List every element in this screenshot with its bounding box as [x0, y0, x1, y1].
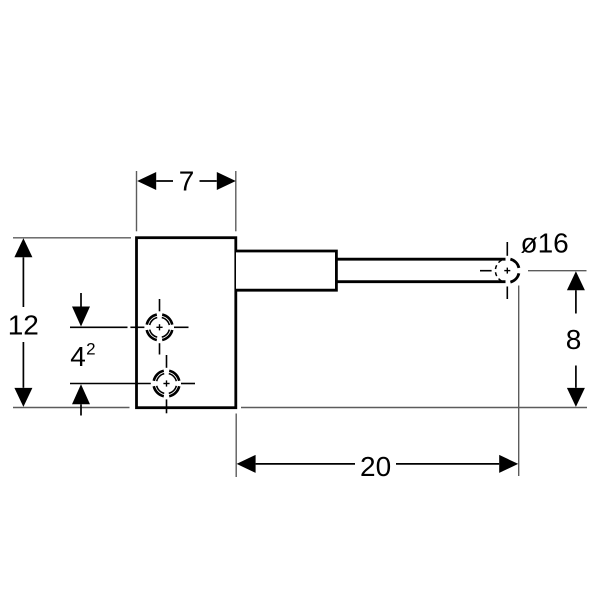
hole H1 center line horizontal — [130, 326, 144, 328]
dim 4 line lower — [80, 404, 82, 415]
hole H2 center line horizontal — [181, 383, 195, 385]
extension line dim7 left — [136, 171, 138, 231]
extension line bottom left — [13, 407, 130, 409]
hole H1 center line vertical — [159, 299, 161, 311]
dim 8 line — [575, 290, 577, 313]
rod collar segment — [236, 251, 336, 290]
dim 4 line upper — [80, 293, 82, 307]
rod shaft top line — [336, 258, 505, 261]
dim 12 line — [22, 257, 24, 307]
dim 4 extension lower — [70, 383, 151, 385]
dim 8 arrow top — [567, 271, 585, 290]
extension line dim8 top — [528, 270, 587, 272]
body plate outline — [137, 238, 236, 408]
rod end ball hidden dashed arc — [495, 260, 501, 281]
dim 12 arrow top — [14, 238, 32, 257]
rod shaft bottom line — [336, 280, 505, 283]
extension line dim7 right — [235, 171, 237, 231]
dim 20 arrow left — [237, 455, 256, 473]
dim 4 extension upper — [70, 326, 128, 328]
extension line bottom right — [241, 407, 587, 409]
hole H2 inner circle — [157, 374, 177, 394]
extension line dim12 top — [13, 237, 131, 239]
svg-text:4: 4 — [70, 341, 86, 372]
svg-text:8: 8 — [566, 324, 582, 355]
ball center line vertical — [506, 242, 508, 256]
hole H2 outer circle — [154, 371, 179, 396]
rod end ball cap arc — [510, 259, 519, 282]
ball center cross — [504, 270, 510, 272]
dim 4 arrow down — [72, 307, 90, 327]
dim 7 arrow right — [217, 172, 236, 190]
extension line dim20 left — [235, 414, 237, 478]
svg-text:ø16: ø16 — [520, 228, 568, 259]
dim 12 arrow bottom — [14, 388, 32, 407]
svg-text:2: 2 — [86, 339, 95, 358]
dim 8 arrow bottom — [567, 388, 585, 407]
ball center line horizontal left — [480, 270, 492, 272]
svg-text:12: 12 — [8, 310, 39, 341]
dim 7 line — [156, 180, 173, 182]
hole H1 inner circle — [150, 317, 170, 337]
hole H2 center line vertical — [166, 355, 168, 368]
hole H1 outer circle — [147, 315, 172, 340]
hole H1 center cross — [156, 326, 162, 328]
dim 20 arrow right — [499, 455, 518, 473]
dim 7 arrow left — [137, 172, 156, 190]
dim 20 line — [256, 463, 355, 465]
dim 4 arrow up — [72, 384, 90, 404]
svg-text:20: 20 — [360, 451, 391, 482]
svg-text:7: 7 — [179, 165, 195, 196]
hole H2 center cross — [163, 383, 169, 385]
extension line dim20 right — [518, 286, 520, 477]
